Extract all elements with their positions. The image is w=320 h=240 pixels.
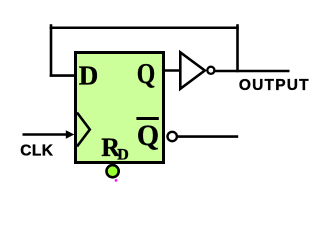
flip-flop U1 body bbox=[76, 53, 164, 163]
magenta artifact dot bbox=[115, 179, 117, 181]
wire: feedback right vertical bbox=[236, 24, 239, 72]
svg-text:D: D bbox=[117, 146, 129, 163]
svg-text:Q: Q bbox=[137, 57, 155, 90]
RD reset bubble bbox=[107, 165, 119, 177]
wire: Q to inverter bbox=[163, 69, 181, 72]
CLK arrowhead bbox=[66, 130, 75, 139]
wire: inverter output to OUTPUT bbox=[213, 70, 289, 73]
wire: Qbar output bbox=[177, 135, 238, 138]
clock input triangle bbox=[77, 113, 90, 147]
wire: feedback left vertical bbox=[50, 24, 53, 76]
inverter U2 output bubble bbox=[207, 67, 214, 74]
svg-text:D: D bbox=[79, 60, 99, 90]
wire: feedback top horizontal bbox=[50, 26, 239, 29]
svg-text:OUTPUT: OUTPUT bbox=[239, 77, 309, 94]
inverter U2 triangle bbox=[180, 52, 205, 89]
svg-text:Q: Q bbox=[137, 119, 159, 152]
wire: CLK input bbox=[23, 133, 68, 136]
wire: D input bbox=[50, 74, 76, 77]
svg-text:CLK: CLK bbox=[20, 142, 53, 159]
Qbar output bubble bbox=[168, 132, 177, 141]
label Qbar overline bbox=[136, 117, 158, 120]
